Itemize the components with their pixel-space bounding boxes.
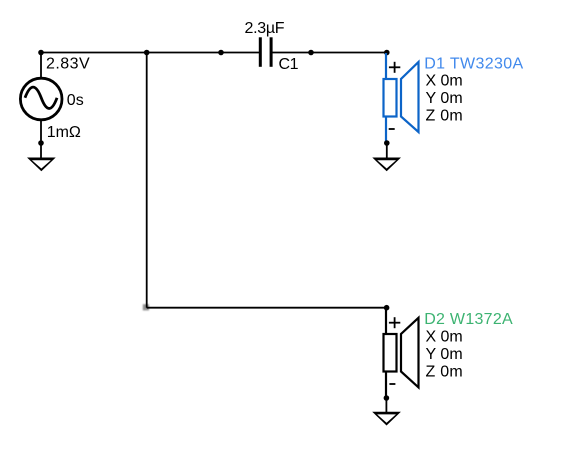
D1 cone — [401, 62, 419, 132]
D2 body rectangle — [384, 334, 397, 372]
source circle — [20, 78, 62, 120]
svg-text:1mΩ: 1mΩ — [47, 124, 81, 141]
junction dot at D1 bottom — [384, 140, 390, 146]
svg-text:Z 0m: Z 0m — [426, 364, 463, 381]
junction dot at D2 bottom — [384, 395, 390, 401]
pin - bottom lead of D2 — [385, 372, 387, 399]
svg-text:Y 0m: Y 0m — [426, 346, 463, 363]
wire: source top lead — [40, 53, 42, 80]
ground symbol below D1 — [372, 158, 401, 172]
pin + top lead of D1 — [385, 53, 387, 79]
D1 body rectangle — [384, 79, 397, 117]
plus pin marker of D2 — [389, 317, 400, 328]
ground symbol below D2 — [372, 412, 401, 426]
junction dot at mid branch node — [144, 50, 150, 56]
wire: lower net horizontal to speaker D2 — [147, 307, 387, 309]
wire: top net from source to capacitor left plate — [41, 52, 259, 54]
junction dot at speaker D2 top pin — [384, 305, 390, 311]
junction dot at speaker D1 top pin — [384, 50, 390, 56]
svg-text:Z 0m: Z 0m — [426, 107, 463, 124]
wire: D2 bottom to ground — [385, 398, 387, 412]
wire: capacitor right plate to speaker D1 pin — [272, 52, 387, 54]
speaker driver D1 (tweeter) — [384, 53, 419, 143]
capacitor right plate — [270, 37, 273, 67]
svg-text:2.83V: 2.83V — [46, 56, 90, 73]
plus pin marker of D1 — [389, 62, 400, 73]
svg-text:2.3µF: 2.3µF — [245, 20, 285, 37]
svg-text:C1: C1 — [279, 56, 299, 73]
svg-text:X 0m: X 0m — [426, 329, 463, 346]
capacitor C1 — [259, 37, 273, 67]
svg-text:D2 W1372A: D2 W1372A — [424, 311, 513, 328]
svg-text:X 0m: X 0m — [426, 72, 463, 89]
svg-text:Y 0m: Y 0m — [426, 90, 463, 107]
svg-text:D1 TW3230A: D1 TW3230A — [424, 55, 523, 72]
wire: D1 bottom to ground — [386, 143, 388, 158]
junction dot at source bottom — [38, 140, 44, 146]
ground symbol below source — [27, 158, 56, 172]
voltage source V1 — [20, 53, 62, 158]
wire: source bottom lead — [40, 120, 42, 158]
minus pin marker of D2 — [389, 383, 395, 385]
pin - bottom lead of D1 — [385, 117, 387, 144]
corner handle at lower-net bend node — [143, 304, 149, 310]
D2 cone — [401, 318, 419, 388]
capacitor left plate — [259, 37, 262, 67]
minus pin marker of D1 — [389, 128, 395, 130]
pin + top lead of D2 — [385, 308, 387, 334]
sine wave — [25, 87, 57, 108]
speaker driver D2 (woofer) — [384, 308, 419, 398]
junction dot at source top — [38, 50, 44, 56]
junction dot at capacitor left terminal — [218, 50, 224, 56]
wire: branch node down to lower net — [146, 53, 148, 308]
svg-text:0s: 0s — [67, 92, 84, 109]
junction dot at capacitor right terminal — [308, 50, 314, 56]
